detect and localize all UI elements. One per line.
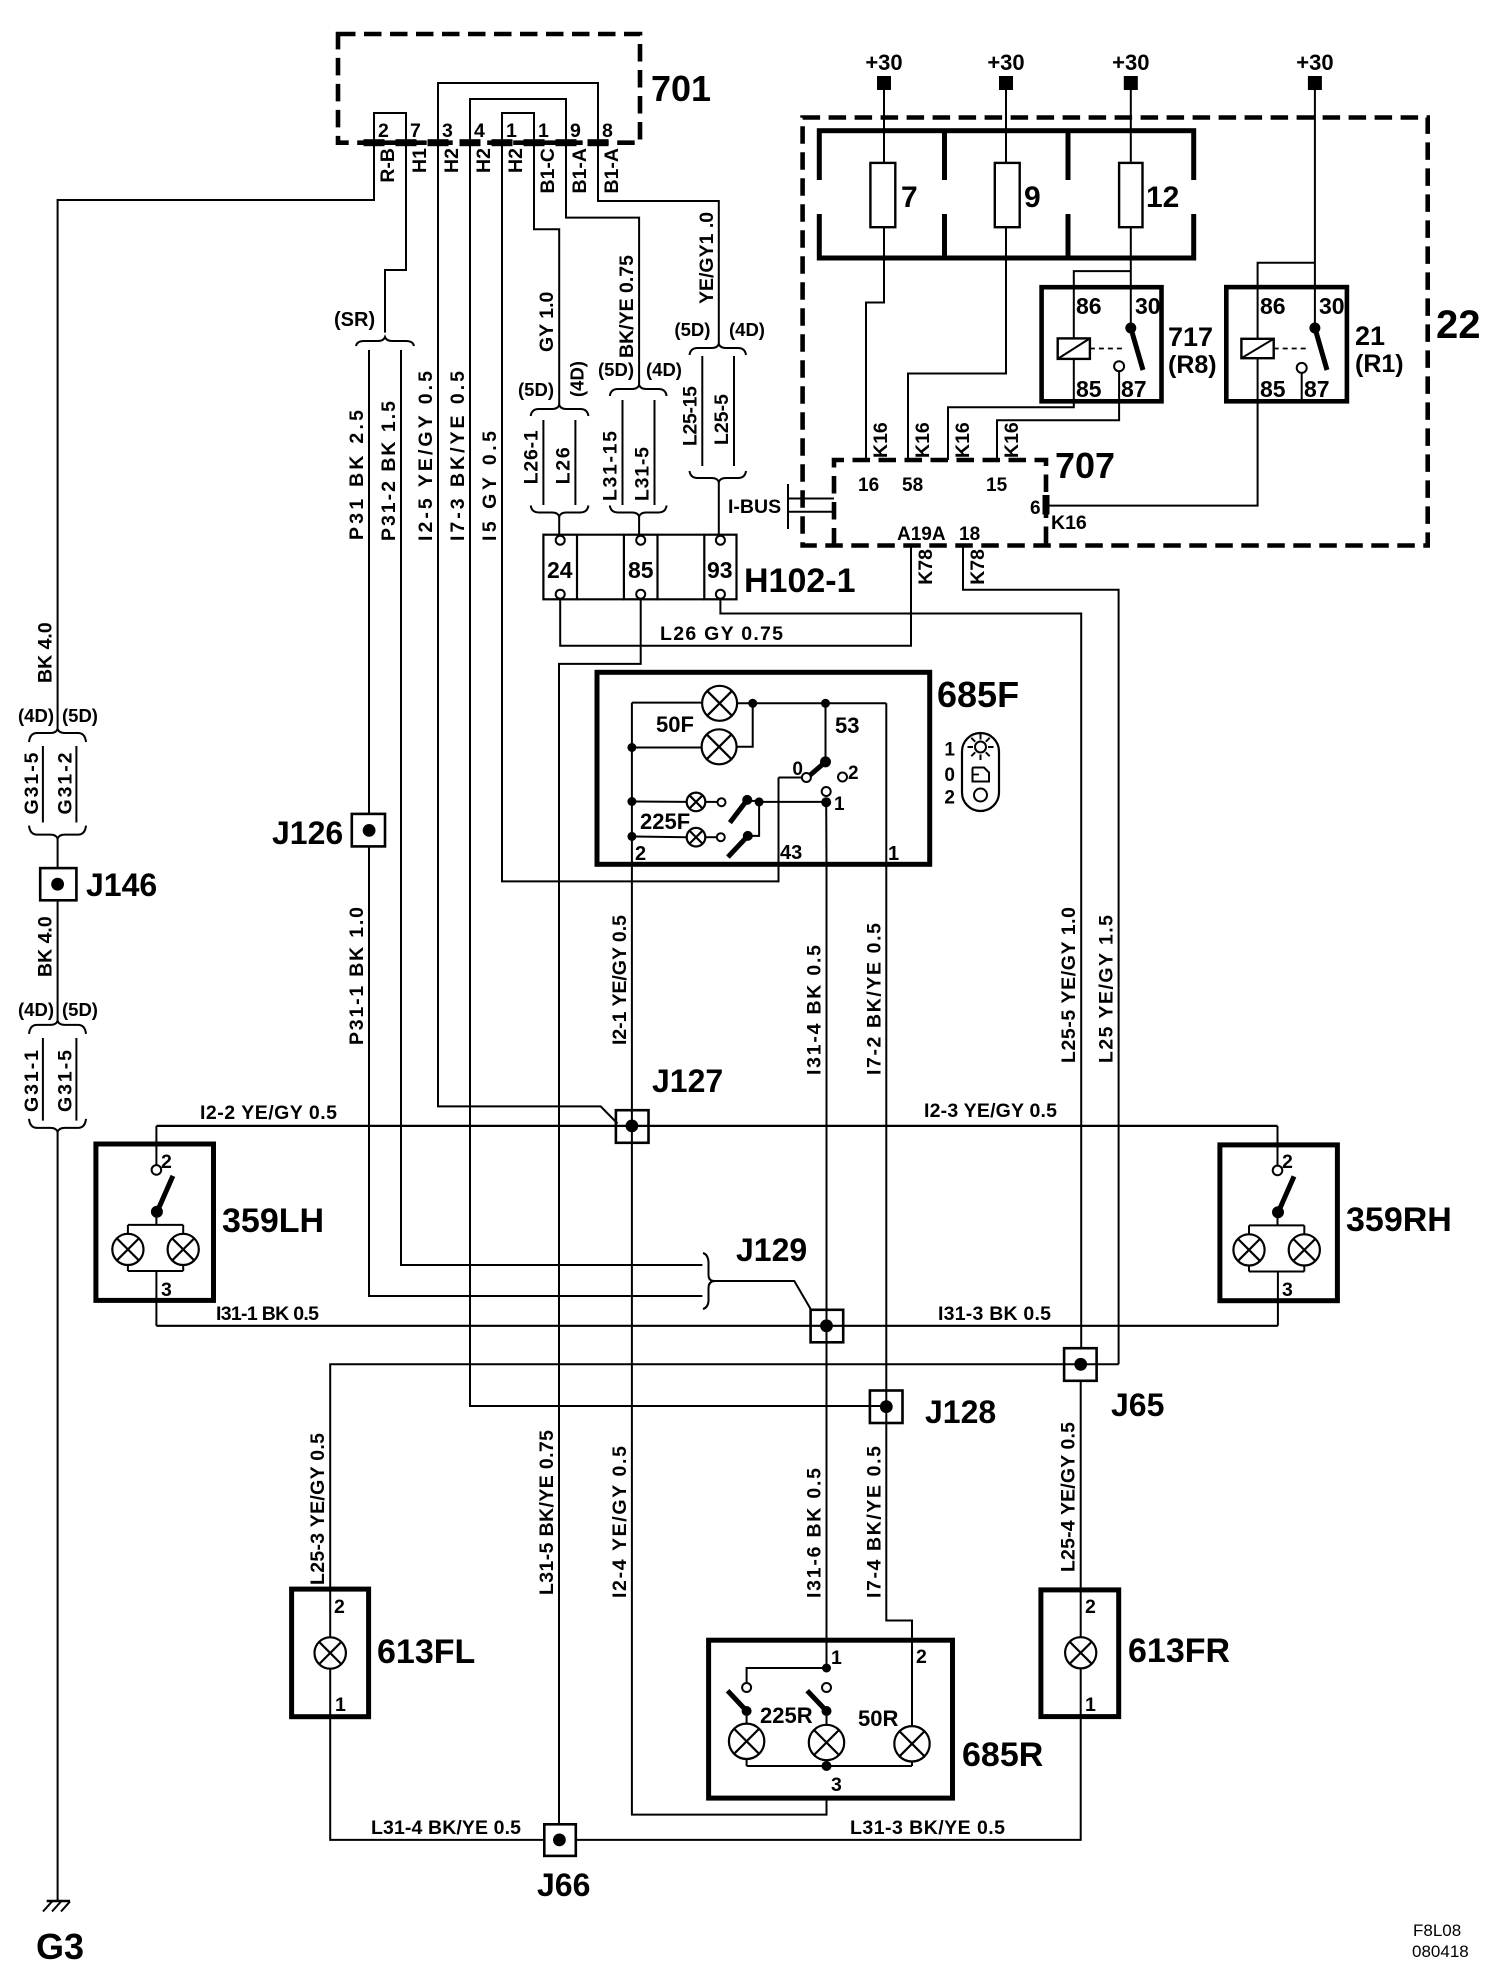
svg-text:F8L08: F8L08: [1413, 1921, 1461, 1940]
svg-text:(5D): (5D): [518, 379, 554, 400]
indicator lamp icon: [975, 742, 986, 753]
svg-text:I7-3 BK/YE 0.5: I7-3 BK/YE 0.5: [447, 371, 469, 541]
svg-text:(4D): (4D): [567, 361, 588, 397]
svg-text:J146: J146: [86, 867, 157, 903]
front marker lamp 613FL: [292, 1589, 369, 1717]
svg-text:(R1): (R1): [1355, 350, 1404, 378]
svg-text:1: 1: [831, 1647, 842, 1669]
svg-text:1: 1: [506, 120, 517, 142]
wire H102-1 pin 93 to J65 (L25-5 YE/GY 1.0): [720, 599, 1081, 1348]
wire L31-3 BK/YE 0.5 from J66 to 613FR pin 1: [576, 1717, 1081, 1840]
wire I7-3 BK/YE 0.5 from 701 pin 4 to J128: [470, 143, 886, 1406]
svg-text:I31-3 BK 0.5: I31-3 BK 0.5: [938, 1303, 1051, 1325]
svg-text:H2: H2: [505, 148, 527, 173]
wire L25-15 variant: [701, 356, 703, 466]
merge brace at J129: [703, 1253, 715, 1309]
svg-text:87: 87: [1121, 376, 1147, 402]
svg-text:8: 8: [602, 120, 613, 142]
svg-text:L25-5: L25-5: [711, 394, 733, 445]
wire contact 0 to pin 43: [779, 777, 802, 779]
svg-text:2: 2: [334, 1596, 345, 1618]
svg-text:(4D): (4D): [18, 999, 54, 1020]
contact 1 circle: [822, 787, 831, 796]
svg-text:7: 7: [901, 181, 918, 214]
svg-text:I2-1 YE/GY 0.5: I2-1 YE/GY 0.5: [609, 915, 631, 1045]
svg-text:3: 3: [831, 1774, 842, 1796]
svg-text:L31-5 BK/YE 0.75: L31-5 BK/YE 0.75: [536, 1430, 558, 1595]
pin 24 of H102-1: [556, 536, 565, 545]
svg-text:(4D): (4D): [646, 359, 682, 380]
svg-text:I7-4 BK/YE 0.5: I7-4 BK/YE 0.5: [863, 1446, 885, 1598]
wire +30 to relay 21 pin 30: [1314, 90, 1316, 328]
pin 1 (B1-C) of 701: [524, 139, 545, 146]
359LH bulb rail bottom: [127, 1265, 129, 1271]
685R blade middle: [807, 1691, 826, 1711]
svg-text:I31-1 BK 0.5: I31-1 BK 0.5: [216, 1303, 319, 1325]
bridge wire pins 3-8 inside 701: [438, 83, 598, 143]
relay 717 pin 87 wire to 707 pin 15 (K16): [997, 371, 1119, 460]
svg-text:2: 2: [161, 1151, 172, 1173]
359RH bulb rail bottom: [1248, 1266, 1250, 1272]
svg-text:(5D): (5D): [62, 705, 98, 726]
wire L26 variant: [574, 420, 576, 505]
pin 85 of H102-1: [636, 536, 645, 545]
svg-text:P31 BK 2.5: P31 BK 2.5: [346, 410, 368, 540]
svg-text:1: 1: [944, 740, 955, 761]
pin 4 (H2) of 701: [460, 139, 481, 146]
svg-text:B1-C: B1-C: [537, 148, 559, 194]
svg-text:BK 4.0: BK 4.0: [35, 916, 57, 977]
685R left branch: [747, 1668, 827, 1683]
svg-text:53: 53: [835, 713, 859, 738]
svg-text:2: 2: [944, 788, 955, 809]
613FL pin 2 stub: [329, 1589, 331, 1637]
svg-text:86: 86: [1076, 293, 1102, 319]
svg-text:93: 93: [707, 557, 733, 583]
svg-text:G31-5: G31-5: [55, 1050, 77, 1112]
wire to H102-1 pin 24: [558, 517, 560, 537]
front marker lamp 613FR: [1041, 1590, 1119, 1717]
svg-text:86: 86: [1260, 293, 1286, 319]
svg-text:A19A: A19A: [897, 524, 946, 545]
svg-text:H1: H1: [409, 148, 431, 173]
svg-text:9: 9: [570, 120, 581, 142]
svg-text:(5D): (5D): [598, 359, 634, 380]
wire L31-5 variant: [654, 400, 656, 505]
svg-text:J128: J128: [925, 1394, 996, 1430]
dashed box 707: [834, 460, 1046, 546]
wire between blades: [748, 802, 759, 836]
685R contact circle middle: [822, 1683, 831, 1692]
wire L25-3 YE/GY 0.5 from 613FL pin 2 to J65: [330, 1364, 1118, 1589]
junction J127: [616, 1110, 649, 1143]
relay 717 pin 85 wire to 707 (K16): [948, 359, 1074, 460]
svg-text:+30: +30: [1112, 50, 1149, 75]
relay 717 coil-contact dashed link: [1090, 348, 1124, 350]
svg-text:30: 30: [1135, 293, 1161, 319]
relay 21 pin 87 stub: [1301, 373, 1303, 401]
359RH bulb right: [1289, 1234, 1320, 1265]
svg-text:85: 85: [628, 557, 654, 583]
svg-text:L31-4 BK/YE 0.5: L31-4 BK/YE 0.5: [371, 1817, 521, 1839]
svg-text:22: 22: [1436, 303, 1481, 347]
variant merge brace L31: [610, 506, 667, 517]
359LH bulb left: [112, 1234, 143, 1265]
svg-text:2: 2: [1085, 1596, 1096, 1618]
359RH bulb rail top: [1277, 1212, 1279, 1225]
svg-text:I2-2 YE/GY 0.5: I2-2 YE/GY 0.5: [200, 1102, 337, 1124]
svg-text:I-BUS: I-BUS: [728, 496, 781, 518]
svg-text:701: 701: [651, 68, 711, 109]
svg-text:16: 16: [858, 475, 879, 496]
wire G31-5 variant (5D upper): [42, 746, 44, 823]
relay 717 (R8): [1042, 287, 1162, 401]
svg-text:1: 1: [335, 1694, 346, 1716]
relay 717 contact 87 circle: [1114, 361, 1124, 371]
relay 717 coil: [1058, 338, 1090, 359]
svg-text:I2-4 YE/GY 0.5: I2-4 YE/GY 0.5: [609, 1446, 631, 1598]
wire from 701 pin 2 to left edge (R-B): [58, 143, 374, 729]
svg-text:(5D): (5D): [62, 999, 98, 1020]
relay 21 coil-contact dashed link: [1274, 348, 1308, 350]
bridge wire pins 4-9 inside 701: [470, 99, 566, 143]
wire G31-5 variant lower: [75, 1038, 77, 1121]
svg-text:K16: K16: [1001, 422, 1023, 458]
685R bulb 225R middle: [826, 1711, 828, 1725]
junction J129: [811, 1310, 844, 1343]
I-BUS symbol: [787, 484, 789, 529]
svg-text:717: 717: [1168, 322, 1213, 352]
svg-text:3: 3: [442, 120, 453, 142]
side marker lamp 359LH: [96, 1144, 214, 1300]
685R bottom rail to pin 3: [747, 1765, 912, 1767]
wire L25-5 variant: [733, 356, 735, 466]
svg-text:6: 6: [1030, 498, 1041, 519]
fuse 12: [1119, 163, 1142, 227]
wire I2-2 YE/GY 0.5 / I2-3 YE/GY 0.5 horizontal: [156, 1125, 1277, 1127]
wire from 701 pin 7 (H1): [385, 143, 406, 333]
svg-text:1: 1: [834, 794, 845, 815]
613FR pin 2 stub: [1080, 1590, 1082, 1637]
svg-text:2: 2: [848, 763, 859, 784]
bulb 50F upper: [702, 686, 737, 721]
wire to H102-1 pin 85: [638, 517, 640, 537]
ground symbol G3: [47, 1900, 70, 1903]
switch blade 0-1-2: [820, 756, 831, 767]
wire I2-1 YE/GY 0.5 from 685F pin 2 through J127 down (I2-4) to 685R pin 3: [632, 864, 827, 1814]
svg-text:613FL: 613FL: [377, 1633, 475, 1671]
wire I5 GY 0.5 from 701 pin 1 to 685F pin 43: [502, 143, 779, 882]
wire L31-4 BK/YE 0.5 from 613FL pin 1 to J66: [330, 1717, 544, 1840]
svg-text:3: 3: [161, 1279, 172, 1301]
relay 21 coil: [1241, 339, 1273, 358]
position indicator pill 0-1-2: [962, 733, 999, 811]
685R pin 1 wire: [826, 1640, 828, 1668]
svg-text:85: 85: [1260, 376, 1286, 402]
359RH pin 2 contact: [1273, 1166, 1283, 1176]
bulb 225F lower: [627, 832, 636, 841]
svg-text:L26-1: L26-1: [520, 430, 542, 484]
wire L31-15 variant: [622, 400, 624, 505]
svg-text:9: 9: [1024, 181, 1041, 214]
svg-text:GY 1.0: GY 1.0: [536, 291, 558, 352]
junction J128: [870, 1391, 903, 1424]
685R contact circle left: [742, 1683, 751, 1692]
junction J146: [40, 868, 76, 900]
svg-text:2: 2: [916, 1646, 927, 1668]
pin 3 (H2) of 701: [428, 139, 449, 146]
svg-text:L26 GY 0.75: L26 GY 0.75: [660, 623, 783, 645]
svg-text:L25-15: L25-15: [679, 386, 701, 446]
svg-text:(SR): (SR): [334, 309, 375, 331]
svg-text:3: 3: [1282, 1279, 1293, 1301]
wire 50F lower to top bus: [737, 703, 753, 747]
relay 21 pin 86 wire: [1258, 263, 1315, 339]
svg-text:J127: J127: [652, 1063, 723, 1099]
svg-text:L25-4 YE/GY 0.5: L25-4 YE/GY 0.5: [1058, 1422, 1080, 1572]
relay 21 (R1): [1226, 287, 1347, 401]
svg-text:2: 2: [378, 120, 389, 142]
relay 21 pin 85 wire to 707 pin 6: [1046, 358, 1258, 505]
685F top bus wire: [737, 702, 886, 704]
359LH switch blade: [157, 1176, 173, 1212]
svg-text:H2: H2: [473, 148, 495, 173]
bulb 50F lower: [702, 729, 737, 764]
relay 717 pin 86 wire: [1074, 271, 1131, 338]
pin 7 (H1) of 701: [396, 139, 417, 146]
613FL pin 1 stub: [329, 1669, 331, 1717]
svg-text:H2: H2: [441, 148, 463, 173]
svg-text:225F: 225F: [640, 809, 690, 834]
359LH bulb right: [168, 1234, 199, 1265]
svg-text:58: 58: [902, 475, 923, 496]
wire I7-2 BK/YE 0.5 from 685F pin 1 through J128 (I7-4) to 685R pin 2: [886, 864, 912, 1726]
wire fuse 9 to 707 pin 58 (K16): [908, 227, 1006, 460]
svg-text:225R: 225R: [760, 1703, 813, 1728]
wire to ground G3: [57, 1132, 59, 1901]
wire L25 YE/GY 1.5 from 707 pin 18 to J65 area: [963, 546, 1119, 1365]
svg-text:I7-2 BK/YE 0.5: I7-2 BK/YE 0.5: [863, 923, 885, 1075]
svg-text:(4D): (4D): [729, 319, 765, 340]
indicator off icon: [974, 789, 987, 802]
svg-text:G31-1: G31-1: [21, 1050, 43, 1112]
685F internal feed bus: [631, 703, 633, 865]
wire top bus to pin 1: [885, 703, 887, 864]
variant merge brace L25: [690, 471, 747, 482]
svg-text:P31-1 BK 1.0: P31-1 BK 1.0: [346, 907, 368, 1045]
svg-text:(4D): (4D): [18, 705, 54, 726]
wire I31-1 BK 0.5 / I31-3 BK 0.5 horizontal: [156, 1325, 1278, 1327]
connector 701 (dashed box): [338, 34, 640, 143]
svg-text:50F: 50F: [656, 712, 694, 737]
wire riser to 359RH pin 2: [1277, 1126, 1279, 1166]
wire G31-1 variant: [42, 1038, 44, 1121]
613FR bulb: [1065, 1637, 1096, 1668]
svg-text:YE/GY1 .0: YE/GY1 .0: [696, 212, 718, 304]
wire 359RH pin 3 drop: [1277, 1301, 1279, 1326]
svg-text:0: 0: [944, 765, 955, 786]
svg-text:(5D): (5D): [674, 319, 710, 340]
dashed box 22: [803, 118, 1428, 546]
bridge wire pins 2-7 inside 701: [374, 113, 406, 143]
svg-text:R-B: R-B: [377, 148, 399, 183]
wire GY 1.0 from 701 pin 1 (B1-C): [534, 143, 559, 405]
359RH bulb left: [1233, 1234, 1264, 1265]
svg-text:I5 GY 0.5: I5 GY 0.5: [479, 431, 501, 541]
pin 93 of H102-1: [716, 536, 725, 545]
613FL bulb: [315, 1637, 346, 1668]
svg-text:30: 30: [1319, 293, 1345, 319]
svg-text:+30: +30: [987, 50, 1024, 75]
svg-text:707: 707: [1055, 445, 1115, 486]
svg-text:I2-3 YE/GY 0.5: I2-3 YE/GY 0.5: [924, 1100, 1057, 1122]
svg-text:1: 1: [538, 120, 549, 142]
svg-text:15: 15: [986, 475, 1008, 496]
pin 6 of 707: [1043, 495, 1050, 515]
fuse holder box: [819, 131, 1193, 258]
svg-text:L31-15: L31-15: [600, 431, 622, 501]
variant merge brace lower left: [29, 1119, 86, 1132]
svg-text:BK 4.0: BK 4.0: [35, 622, 57, 683]
svg-text:J126: J126: [272, 815, 343, 851]
connector H102-1: [543, 535, 577, 600]
svg-text:359LH: 359LH: [222, 1202, 324, 1240]
svg-text:J129: J129: [736, 1232, 807, 1268]
variant split brace L26: [531, 405, 589, 416]
wire L26-1 variant: [542, 420, 544, 505]
wire contact 1 down to pin (I31-4): [825, 802, 827, 864]
svg-text:+30: +30: [865, 50, 902, 75]
svg-text:2: 2: [635, 843, 646, 865]
pin 8 (B1-A) of 701: [588, 139, 609, 146]
wire blade to contact 1: [747, 800, 759, 802]
wire I2-5 YE/GY 0.5 from 701 pin 3 to J127: [438, 143, 618, 1124]
wire 359LH pin 3 drop: [155, 1300, 157, 1325]
switch blade 225F lower: [743, 831, 753, 841]
bridge wire pins 1-1 inside 701: [502, 113, 534, 143]
svg-text:P31-2 BK 1.5: P31-2 BK 1.5: [378, 401, 400, 541]
svg-text:+30: +30: [1296, 50, 1333, 75]
indicator parking icon: [973, 768, 990, 782]
switch 53 wire: [825, 703, 827, 762]
svg-text:B1-A: B1-A: [601, 148, 623, 194]
svg-text:G31-2: G31-2: [55, 752, 77, 814]
svg-text:J65: J65: [1111, 1387, 1164, 1423]
wire brace to J146: [57, 839, 59, 869]
svg-text:L25 YE/GY 1.5: L25 YE/GY 1.5: [1096, 915, 1118, 1063]
svg-text:24: 24: [547, 557, 573, 583]
svg-text:L26: L26: [552, 447, 574, 484]
svg-text:1: 1: [888, 843, 899, 865]
contact 2 circle: [838, 773, 847, 782]
svg-text:18: 18: [959, 524, 980, 545]
svg-text:L25-3 YE/GY 0.5: L25-3 YE/GY 0.5: [307, 1433, 329, 1585]
svg-text:43: 43: [780, 842, 802, 864]
wire P31-2 BK 1.5: [401, 350, 702, 1265]
junction J126: [352, 814, 385, 847]
svg-text:1: 1: [1085, 1694, 1096, 1716]
wire fuse 7 to 707 pin 16 (K16): [866, 227, 884, 460]
wire J146 down (BK 4.0): [57, 900, 59, 1021]
svg-text:I2-5 YE/GY 0.5: I2-5 YE/GY 0.5: [415, 371, 437, 541]
wire P31-1 BK 1.0 from J126 to J129 brace: [369, 846, 702, 1296]
svg-text:K78: K78: [915, 549, 937, 585]
svg-text:50R: 50R: [858, 1706, 898, 1731]
svg-text:K16: K16: [1051, 512, 1087, 534]
svg-text:685R: 685R: [962, 1736, 1043, 1774]
wire riser to 359LH pin 2: [155, 1126, 157, 1165]
svg-text:H102-1: H102-1: [744, 562, 856, 600]
rear light unit 685R: [709, 1640, 953, 1798]
relay 717 contact blade pin 30: [1125, 323, 1136, 334]
wire YE/GY 1.0 from 701 pin 8: [598, 143, 719, 344]
wire pin 43 inside 685F: [778, 778, 780, 882]
pin 1 (H2) of 701: [492, 139, 513, 146]
svg-text:21: 21: [1355, 321, 1385, 351]
svg-text:K78: K78: [967, 549, 989, 585]
junction J65: [1064, 1348, 1097, 1381]
contact 0 circle: [802, 773, 811, 782]
variant split brace L25: [690, 344, 747, 355]
fuse 7: [870, 163, 895, 227]
switch unit 685F: [597, 672, 930, 864]
685F top wire to bulbs: [632, 702, 702, 704]
359LH pin 2 contact: [152, 1165, 162, 1175]
variant split brace L31: [610, 385, 667, 396]
svg-text:G31-5: G31-5: [21, 752, 43, 814]
svg-text:685F: 685F: [937, 674, 1019, 715]
wire G31-2 variant (4D upper): [75, 746, 77, 823]
svg-text:BK/YE 0.75: BK/YE 0.75: [616, 255, 638, 358]
fuse 9: [995, 163, 1020, 227]
svg-text:12: 12: [1146, 181, 1179, 214]
613FR pin 1 stub: [1080, 1668, 1082, 1716]
wire H102-1 pin 85 to J66 (L31-5 BK/YE 0.75): [559, 599, 641, 1825]
svg-text:J66: J66: [537, 1867, 590, 1903]
variant merge brace L26: [531, 506, 589, 517]
359RH switch blade: [1278, 1176, 1294, 1212]
svg-text:K16: K16: [912, 422, 934, 458]
svg-text:L25-5 YE/GY 1.0: L25-5 YE/GY 1.0: [1058, 907, 1080, 1063]
relay 21 contact 87 circle: [1297, 363, 1307, 373]
svg-text:080418: 080418: [1412, 1942, 1469, 1961]
359LH bulb rail top: [155, 1212, 157, 1225]
wire BK/YE 0.75 from 701 pin 9: [566, 143, 639, 385]
wire I31-4 BK 0.5 from 685F through J129 (I31-6) to 685R pin 1: [826, 864, 828, 1668]
svg-text:(R8): (R8): [1168, 351, 1217, 379]
pin 2 (R-B) of 701: [364, 139, 385, 146]
wire P31 BK 2.5 to J126: [368, 350, 370, 814]
svg-text:613FR: 613FR: [1128, 1632, 1230, 1670]
relay 21 contact blade pin 30: [1309, 323, 1320, 334]
svg-text:4: 4: [474, 120, 485, 142]
side marker lamp 359RH: [1220, 1145, 1338, 1301]
svg-text:7: 7: [410, 120, 421, 142]
variant split brace upper left: [29, 729, 86, 742]
bulb 225F upper: [627, 797, 636, 806]
685R blade left: [728, 1691, 747, 1711]
wire to H102-1 pin 93: [718, 482, 720, 536]
svg-text:K16: K16: [952, 422, 974, 458]
wire brace to J129: [715, 1281, 812, 1311]
svg-text:B1-A: B1-A: [569, 148, 591, 194]
svg-text:G3: G3: [36, 1926, 84, 1967]
svg-text:L31-3 BK/YE 0.5: L31-3 BK/YE 0.5: [850, 1817, 1005, 1839]
variant split brace lower left: [29, 1021, 86, 1034]
svg-text:87: 87: [1304, 376, 1330, 402]
wire fuse 12 to relay 717 pin 30: [1130, 227, 1132, 329]
svg-text:L31-5: L31-5: [632, 447, 654, 501]
